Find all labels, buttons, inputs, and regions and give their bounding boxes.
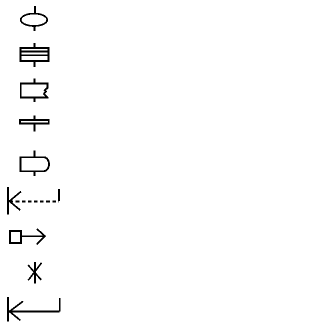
thin bar	[20, 120, 49, 124]
bottom tick	[34, 172, 36, 177]
bottom tick	[34, 62, 36, 68]
terminator symbol S1 (ellipse with top/bottom ticks)	[21, 6, 47, 31]
asterisk symbol S8 (six-spoke star)	[28, 262, 41, 284]
ellipse body	[21, 14, 47, 26]
inner line 1	[20, 50, 49, 52]
small box	[10, 231, 21, 243]
solid incoming-arrow symbol S9	[8, 297, 60, 322]
box-to-arrow symbol S7 (small box with rightward open arrow)	[10, 229, 45, 245]
dashed message line	[10, 201, 59, 203]
inner line 2	[20, 54, 49, 56]
box with jagged right edge	[21, 84, 48, 98]
vertical spoke	[34, 262, 36, 284]
bottom tick	[34, 26, 36, 31]
torn-edge box symbol S3 (rectangle with jagged right edge and ticks)	[21, 79, 48, 103]
dashed incoming-arrow symbol S6	[8, 187, 59, 215]
top tick	[34, 43, 36, 48]
bulge-box symbol S5 (rectangle with convex right side and ticks)	[21, 150, 49, 176]
top tick	[34, 150, 36, 156]
right riser	[58, 189, 60, 201]
top tick	[34, 115, 36, 119]
open arrowhead	[10, 301, 24, 320]
rectangle	[21, 48, 49, 61]
lifeline wall	[7, 297, 9, 322]
bottom tick	[34, 98, 36, 102]
fork-bar symbol S4 (thin bar with top tick and stem)	[20, 115, 49, 131]
box with convex right side	[21, 157, 49, 171]
message line	[20, 235, 44, 237]
message line	[10, 311, 60, 313]
open arrowhead	[37, 229, 45, 245]
open arrowhead	[9, 192, 21, 211]
lifeline wall	[7, 187, 9, 215]
right riser	[59, 298, 61, 312]
stem	[34, 124, 36, 132]
lined-box symbol S2 (rectangle with two inner lines and ticks)	[20, 43, 49, 67]
top tick	[34, 6, 36, 14]
SW-NE spoke	[28, 263, 41, 281]
top tick	[34, 79, 36, 84]
NW-SE spoke	[28, 265, 41, 280]
